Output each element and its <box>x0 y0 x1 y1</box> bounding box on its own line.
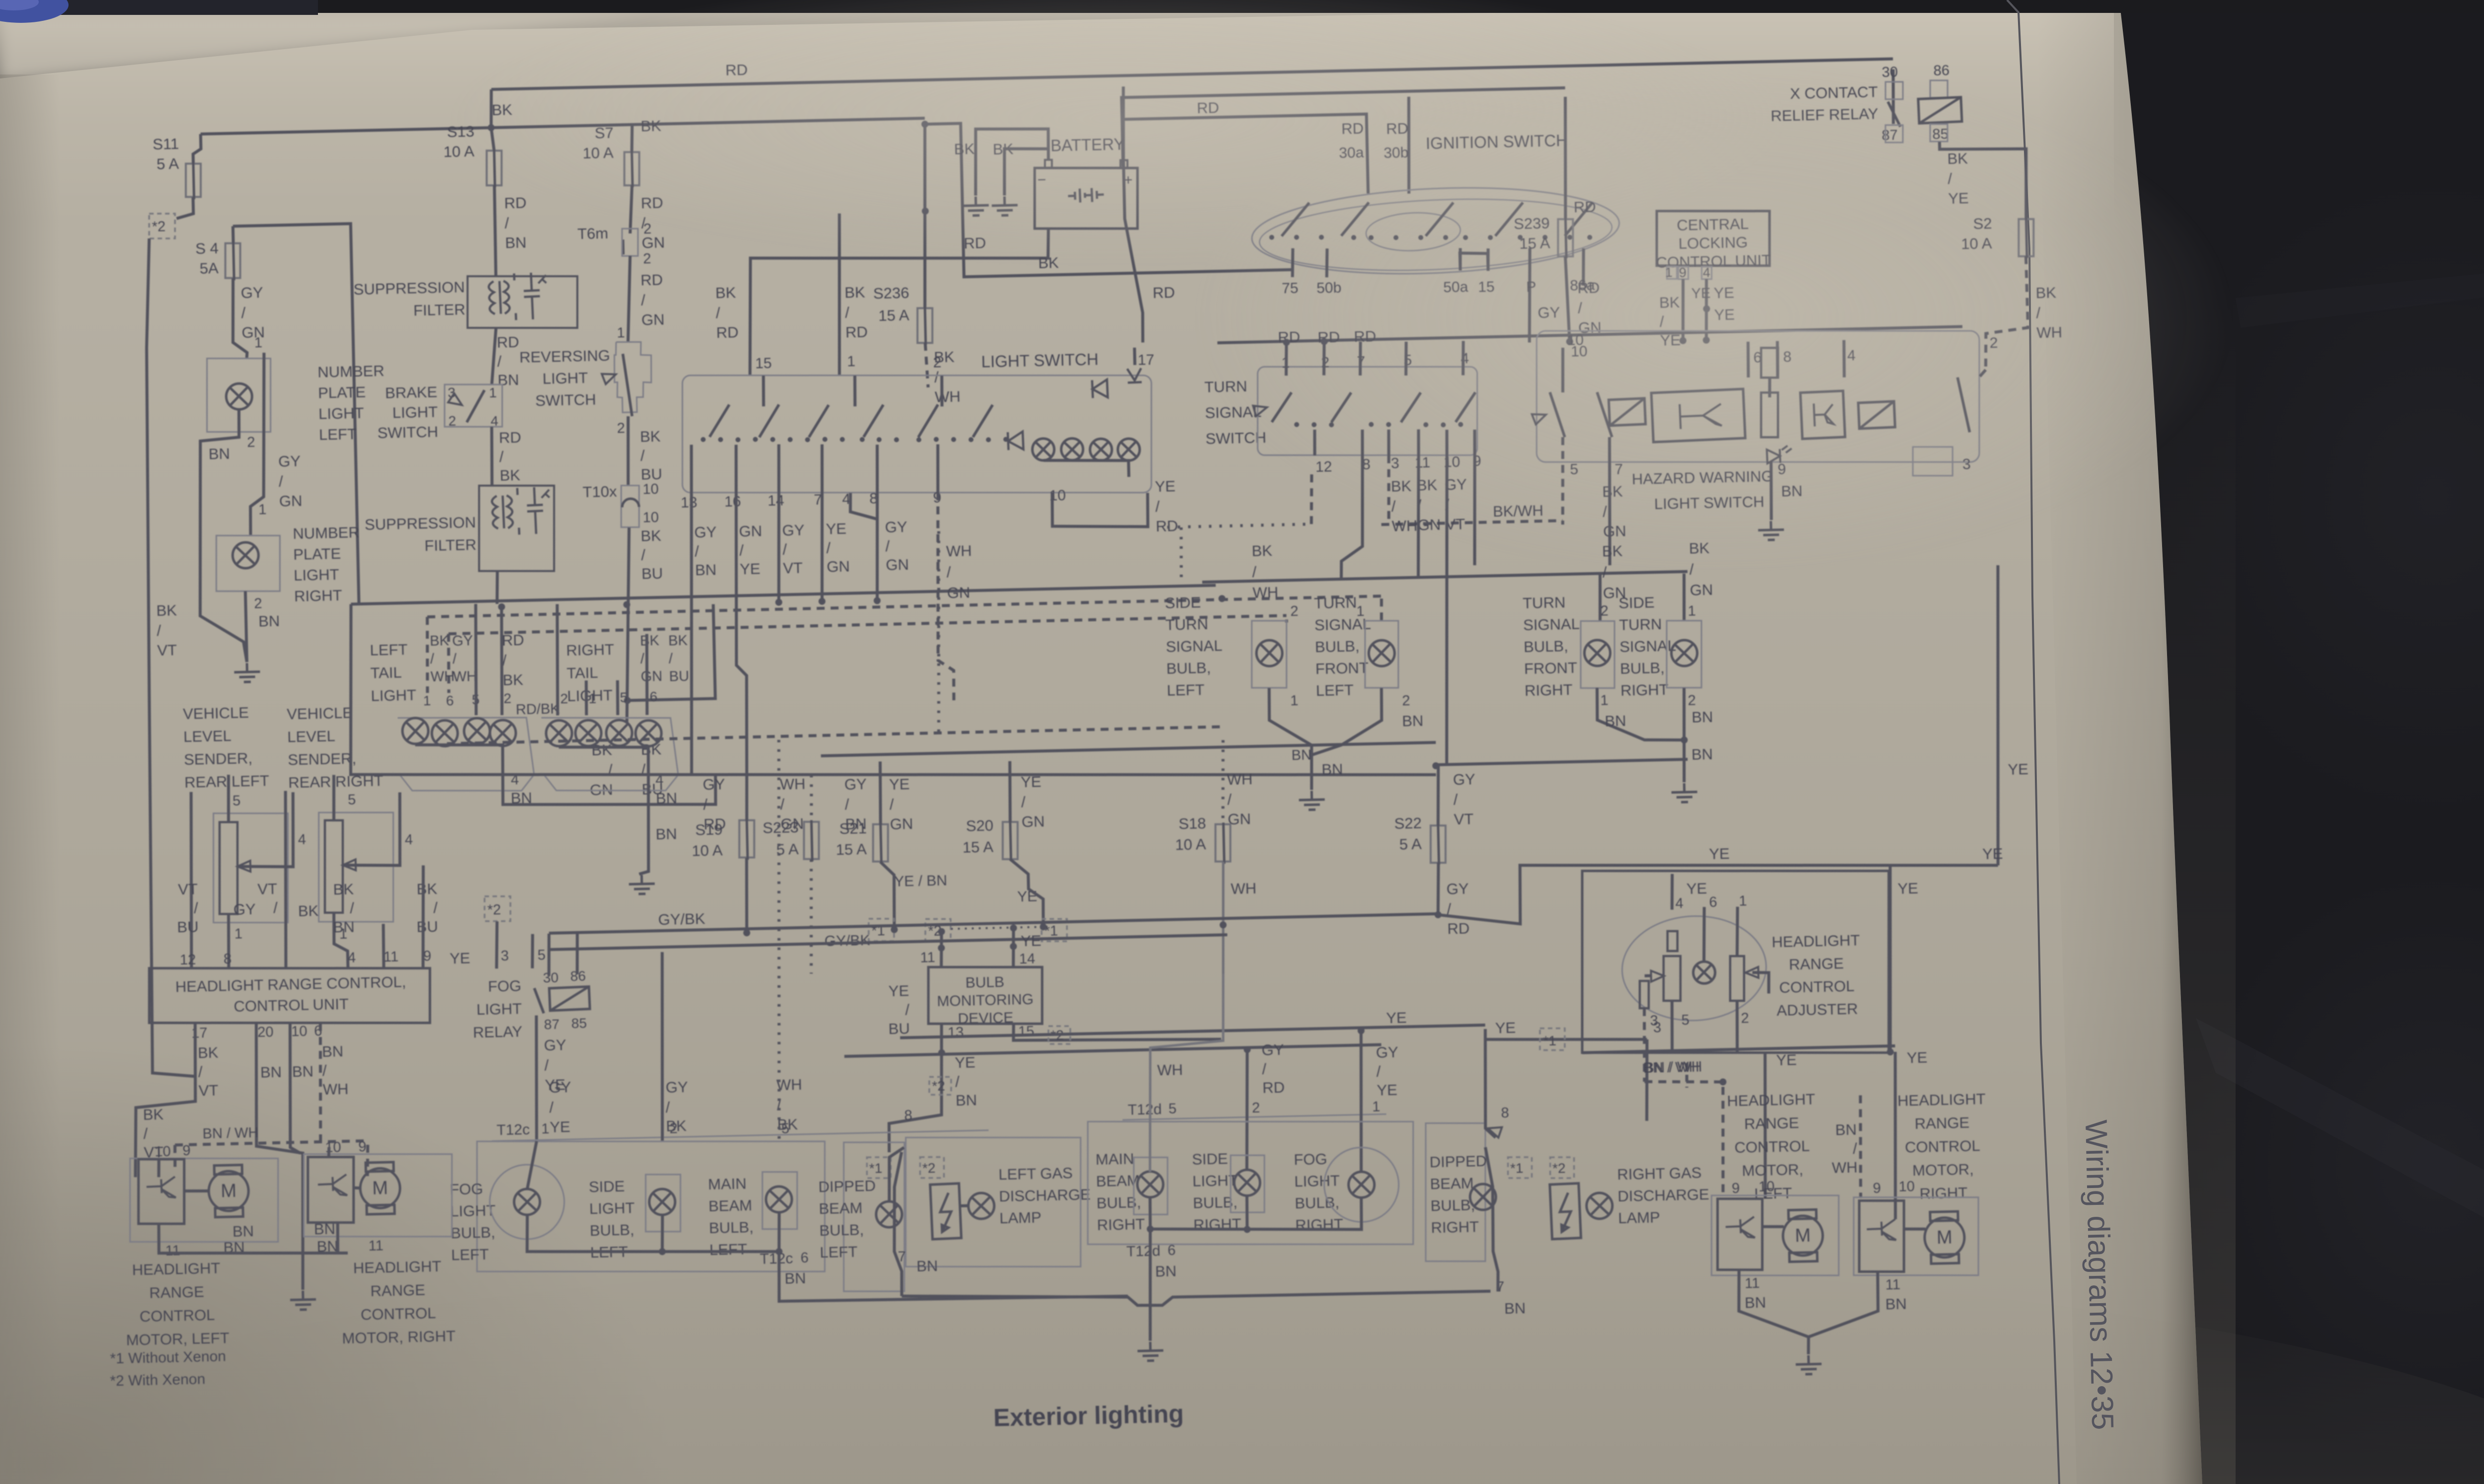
wire ts pin8 down <box>1338 455 1365 579</box>
light switch stub 1t <box>854 375 855 406</box>
svg-text:5 A: 5 A <box>1399 835 1422 853</box>
wire ls pin7 down <box>820 493 825 604</box>
svg-text:BN: BN <box>1321 760 1343 778</box>
side turn signal bulb left box <box>1252 621 1287 688</box>
light switch contact 2 <box>759 405 779 438</box>
wire hrcu pin3 <box>495 921 498 968</box>
wire S18 down <box>1221 862 1226 973</box>
light switch dot 1 <box>700 437 705 442</box>
light switch dot 15 <box>951 437 956 442</box>
bulb right tail 2 <box>575 720 602 746</box>
junction bus690 b <box>1679 337 1686 344</box>
junction bus1216 b <box>818 598 825 605</box>
side light bulb left box <box>646 1175 681 1232</box>
ignition contact dot 4 <box>1351 235 1356 240</box>
junction ts pin1 bus <box>1283 339 1290 346</box>
lightning symbol right <box>1550 1184 1581 1239</box>
light switch dot 6 <box>787 437 792 442</box>
wire right motor feed <box>1892 1052 1899 1219</box>
junction busB bmd14 <box>1010 943 1017 950</box>
ts arrow <box>1253 402 1268 416</box>
svg-text:11: 11 <box>920 950 935 966</box>
fuse S223 <box>804 822 819 859</box>
wire main bulb left up dotted <box>771 740 788 1141</box>
bulb right tail 1 <box>546 720 572 746</box>
wire S20 diag down <box>1010 858 1044 928</box>
bulb left gas discharge <box>968 1193 995 1219</box>
wire S4 drop <box>232 226 235 243</box>
brake switch arm <box>466 390 485 422</box>
wire adjuster pin3 dashed <box>1643 1008 1646 1082</box>
wire second supply drop <box>246 353 268 535</box>
main side fog right outer box <box>1088 1121 1413 1244</box>
ts contact dot 1 <box>1294 422 1299 427</box>
junction fog right <box>1358 1027 1365 1034</box>
junction t12d b <box>1243 1046 1250 1053</box>
svg-text:YE: YE <box>450 949 470 967</box>
svg-text:6: 6 <box>1167 1243 1176 1259</box>
junction bnwh <box>1719 1078 1726 1085</box>
light switch bulb 2 <box>1061 438 1084 460</box>
wire bnwh dashed rm2 <box>1859 1095 1863 1198</box>
suppression filter 1 symbol <box>488 272 548 323</box>
ignition switch contact 4 <box>1494 203 1523 236</box>
wire hazard pin4 drop <box>1844 340 1845 377</box>
clu pin 9 box <box>1678 267 1688 279</box>
wire bnwh dashed rm <box>1644 1080 1725 1200</box>
wire ign P down <box>1527 248 1532 343</box>
svg-text:1: 1 <box>423 693 431 708</box>
wire motor left link <box>1762 1226 1784 1227</box>
motor headlight range right lm <box>360 1162 400 1215</box>
fog bulb right circle <box>1323 1147 1399 1223</box>
wire vls R pin1 down <box>333 913 348 969</box>
light switch stub 13 <box>691 445 693 493</box>
ignition contact dot 11 <box>1518 235 1523 240</box>
ts contact dot 8 <box>1458 422 1463 427</box>
svg-text:YE: YE <box>1386 1009 1407 1027</box>
wire left motor feed <box>1762 1053 1768 1199</box>
junction S18 wh <box>1220 921 1227 928</box>
fuse S223 wire <box>811 820 812 861</box>
svg-text:S11: S11 <box>153 135 179 153</box>
junction bus690 c <box>1703 337 1709 344</box>
wire ls pin9 down dashed <box>934 492 954 701</box>
svg-text:4: 4 <box>348 950 356 965</box>
junction busA bmd11 <box>938 928 945 935</box>
wire fog bulb left wire <box>526 1141 538 1189</box>
svg-text:2: 2 <box>448 413 456 429</box>
wire side bulb to bus <box>661 1215 663 1252</box>
svg-text:WH: WH <box>1231 880 1256 897</box>
vls R resistor <box>325 820 343 913</box>
hazard transistor right <box>1800 391 1845 439</box>
bulb left tail 4 <box>490 720 516 746</box>
svg-text:1: 1 <box>1356 603 1365 619</box>
wire adjuster arrow wire <box>1644 974 1651 977</box>
wire left pair to ground <box>1269 687 1313 791</box>
motor left transistor glyph lm <box>146 1177 176 1198</box>
svg-text:15 A: 15 A <box>962 838 994 856</box>
junction BK bus right <box>922 121 929 128</box>
wire ts pin11 down <box>1415 455 1421 579</box>
svg-text:1: 1 <box>847 353 855 370</box>
wire ls pin10 down <box>1052 490 1149 528</box>
wire pin12 dashed drop <box>1310 474 1313 527</box>
wire fog relay 86 up <box>576 933 578 974</box>
junction left bulbs bus <box>659 1248 666 1255</box>
motor headlight range right <box>1924 1211 1965 1264</box>
hazard left arm <box>1550 392 1565 438</box>
fuse S239 <box>1558 219 1573 256</box>
ignition switch contact 3 <box>1425 203 1454 236</box>
wire S18 white down <box>1146 973 1228 1172</box>
ignition contact dot 6 <box>1394 235 1398 240</box>
ignition contact dot 5 <box>1369 235 1374 240</box>
light switch dot 7 <box>805 437 810 442</box>
wire ign 50a bracket <box>1460 252 1488 271</box>
top dark strip <box>0 0 2484 13</box>
motor left outer <box>1711 1195 1839 1275</box>
svg-text:Wiring diagrams 12•35: Wiring diagrams 12•35 <box>2079 1119 2120 1430</box>
wire adjuster bulb up <box>1703 907 1705 962</box>
wire hazard pin9 to ground <box>1770 462 1773 520</box>
wire T12d6 to ground <box>1148 1229 1153 1341</box>
ignition contact dot 9 <box>1463 235 1468 240</box>
light switch dot 8 <box>822 437 827 442</box>
wire clu pin4 down <box>1705 279 1708 343</box>
photo glare highlights <box>1192 60 2236 576</box>
svg-text:M: M <box>1795 1225 1811 1247</box>
motor right outer <box>1854 1197 1978 1275</box>
wire S239 vertical <box>1563 97 1568 219</box>
wire stsR feed <box>1683 574 1685 621</box>
svg-text:BN: BN <box>258 612 280 630</box>
svg-text:*1: *1 <box>869 1160 882 1176</box>
wire RD branch battery to 30b <box>1122 88 1567 166</box>
junction bus1216 d <box>498 603 505 610</box>
wire vls R pin5 <box>333 775 335 820</box>
relay terminal 30 <box>1885 82 1903 99</box>
wire motors ground stem <box>1808 1337 1809 1354</box>
wire hrcu pin10 down <box>288 1023 301 1153</box>
svg-text:1: 1 <box>234 926 243 942</box>
wire battery minus BK line <box>747 228 1051 375</box>
wire lm right pin10 wire <box>328 1147 329 1157</box>
fuse S21 wire <box>880 822 881 864</box>
light switch contact 1 <box>709 405 730 437</box>
turn signal bulb front right box <box>1581 621 1615 688</box>
hazard resistor mid <box>1761 392 1778 437</box>
junction right bulbs <box>1243 1226 1250 1233</box>
fuse S18 wire <box>1223 822 1224 864</box>
wire right gas down <box>1485 1147 1498 1291</box>
svg-text:BN: BN <box>260 1063 282 1081</box>
fuse S236 wire <box>925 306 926 345</box>
svg-text:86: 86 <box>1933 63 1949 79</box>
wire left tail bulbs bus <box>415 743 503 777</box>
svg-text:5: 5 <box>1168 1101 1177 1116</box>
wire tail light bus <box>351 585 1216 604</box>
page margin rule right <box>2007 0 2059 1484</box>
connector *2 b <box>926 919 951 941</box>
svg-text:LIGHT SWITCH: LIGHT SWITCH <box>981 350 1099 371</box>
hazard resistor top <box>1761 348 1778 377</box>
fuse S13 wire <box>494 148 495 187</box>
svg-text:BN: BN <box>292 1062 314 1080</box>
fog bulb left circle <box>489 1164 565 1240</box>
wire S21 up <box>879 761 882 824</box>
ts arm 3 <box>1400 392 1421 422</box>
wire dashed bus 1 <box>427 596 1384 617</box>
number plate light left box <box>207 359 271 432</box>
brake switch arrow <box>448 393 465 410</box>
wire RD top bus <box>491 59 1893 89</box>
wire gas bulb link <box>959 1204 968 1207</box>
fuse S13 <box>487 150 502 185</box>
svg-text:5: 5 <box>1681 1012 1690 1028</box>
connector *1 dbr <box>1508 1157 1532 1178</box>
svg-text:1: 1 <box>541 1121 549 1137</box>
svg-text:5: 5 <box>620 689 627 705</box>
wire S239 down to bus <box>1565 256 1570 343</box>
svg-text:BN: BN <box>1402 712 1424 730</box>
light switch bulb 3 <box>1090 439 1112 461</box>
bulb fog light right <box>1348 1172 1375 1198</box>
svg-text:2: 2 <box>1688 692 1696 708</box>
svg-text:6: 6 <box>649 689 657 704</box>
motor headlight range left lm <box>208 1165 249 1217</box>
relay terminal 86 <box>1930 80 1947 98</box>
junction bus1216 e <box>623 601 630 608</box>
wire tail L pin5 <box>474 604 478 715</box>
connector T10x arc <box>622 499 639 508</box>
svg-text:9: 9 <box>1731 1181 1740 1196</box>
adjuster arrow right <box>1745 967 1758 978</box>
relay X contact coil <box>1918 97 1962 124</box>
junction BK/BU <box>624 697 631 704</box>
wire tail R pin2 <box>555 604 560 715</box>
vls L resistor <box>220 822 237 914</box>
svg-text:5: 5 <box>538 947 546 963</box>
bulb number plate light left <box>226 383 252 410</box>
svg-text:2: 2 <box>1290 603 1299 619</box>
light switch stub 2t <box>941 375 942 406</box>
wire stsR to ground <box>1682 688 1686 782</box>
light switch dot 5 <box>770 437 775 442</box>
light switch dot 14 <box>933 437 938 442</box>
svg-text:S236: S236 <box>873 284 909 302</box>
connector T6m <box>622 239 625 254</box>
light switch dot 4 <box>753 437 758 442</box>
wire BK/BU branch <box>625 604 715 701</box>
svg-text:5 A: 5 A <box>156 155 179 173</box>
battery box <box>1035 168 1138 228</box>
wire motors to ground <box>1738 1267 1879 1338</box>
adjuster pot blob <box>1620 913 1769 1023</box>
fuse S4 wire <box>233 241 234 280</box>
light switch outline <box>683 375 1152 493</box>
ignition switch ellipse outer <box>1250 181 1621 281</box>
wire BKWH dashed to hazard <box>1381 520 1562 524</box>
wire vls L pin4 <box>236 792 295 868</box>
light switch dot 3 <box>735 437 740 442</box>
svg-text:YE: YE <box>1897 880 1918 897</box>
svg-text:4: 4 <box>405 832 413 848</box>
wire S223 dotted up <box>810 775 812 822</box>
connector *1 a <box>869 919 894 941</box>
svg-text:6: 6 <box>1709 894 1717 910</box>
adjuster resistor far left <box>1640 981 1649 1008</box>
reversing switch arrow <box>602 369 618 384</box>
wire side right to bus <box>1246 1195 1247 1229</box>
adjuster arrow left <box>1651 970 1664 982</box>
wire bus 1560 <box>347 581 1436 799</box>
svg-text:11: 11 <box>384 949 399 965</box>
wire S22 up <box>1437 766 1440 825</box>
svg-text:15: 15 <box>1018 1024 1034 1040</box>
wire dashed 1490 <box>447 727 1224 743</box>
brake light switch outline <box>445 384 502 427</box>
light switch dot 18 <box>1003 437 1008 442</box>
wire motor right link <box>1904 1229 1926 1230</box>
light switch stub 15t <box>763 375 764 406</box>
wire adjuster wire r <box>1752 972 1769 994</box>
junction busB bmd11 <box>938 945 945 952</box>
motor right outer lm <box>304 1154 452 1237</box>
light switch stub 9 <box>937 445 939 493</box>
hazard LED <box>1767 445 1792 463</box>
ignition contact dot 13 <box>1567 235 1572 240</box>
svg-text:14: 14 <box>768 492 784 509</box>
svg-text:YE: YE <box>1495 1019 1516 1037</box>
bulb right gas discharge <box>1586 1192 1613 1219</box>
wire T12c line <box>492 1130 989 1141</box>
svg-text:3: 3 <box>1650 1013 1658 1029</box>
connector *2 bmd15 <box>1048 1026 1070 1044</box>
wire fog right up <box>1358 1029 1364 1172</box>
wire battery plus bus down <box>1123 160 1143 343</box>
fuse S20 wire <box>1010 820 1011 861</box>
wire lm left to bus <box>158 1220 348 1257</box>
wire S13 to filter <box>494 185 496 276</box>
junction left bulbs bus2 <box>776 1248 782 1255</box>
wire vls R pin4 <box>341 792 401 867</box>
light switch dot 17 <box>986 437 991 442</box>
svg-text:*1: *1 <box>1510 1160 1523 1176</box>
headlight range control adjuster box <box>1582 871 1889 1053</box>
svg-text:10 A: 10 A <box>692 841 723 859</box>
svg-text:RD/BK: RD/BK <box>516 701 560 718</box>
svg-text:14: 14 <box>1019 951 1035 967</box>
svg-text:GY/BK: GY/BK <box>658 910 705 928</box>
svg-text:S18: S18 <box>1178 815 1206 832</box>
light switch pin17 diode <box>1127 368 1142 382</box>
ignition contact dot 8 <box>1443 235 1448 240</box>
junction busA S20 <box>1040 923 1047 930</box>
wire right tail bulbs bus <box>559 745 649 777</box>
bulb fog light left <box>514 1188 540 1215</box>
battery cell symbol <box>1068 188 1104 203</box>
svg-text:BN: BN <box>1291 747 1312 763</box>
wire S22 down <box>1437 863 1439 915</box>
fuse S11 wire <box>193 162 194 199</box>
wire hrcu pin9 down <box>421 865 426 968</box>
wire hrcu pin20 down <box>254 1022 306 1291</box>
svg-text:BN: BN <box>1691 745 1713 763</box>
side turn signal bulb right box <box>1667 621 1702 688</box>
ground right bulbs <box>1137 1341 1164 1361</box>
svg-text:1: 1 <box>258 502 267 518</box>
wire hazard pin5 dashed <box>1561 437 1565 524</box>
svg-text:M: M <box>221 1181 237 1202</box>
light switch dot 13 <box>916 437 921 442</box>
bulb left tail 1 <box>402 718 429 744</box>
svg-text:10: 10 <box>1758 1179 1775 1195</box>
wire relay 85 to S2 <box>1940 140 2027 221</box>
motor left outer lm <box>130 1158 278 1242</box>
svg-text:1: 1 <box>588 691 596 706</box>
wire hrcu pin5 YE <box>532 934 534 968</box>
wire ign 75 down <box>1292 248 1293 277</box>
svg-text:*2: *2 <box>1552 1160 1566 1176</box>
wire main bus 690 <box>1217 327 1962 343</box>
svg-text:20: 20 <box>257 1024 274 1040</box>
wire hazard pin8 drop <box>1777 341 1779 377</box>
svg-text:2: 2 <box>1402 693 1410 709</box>
wire vls L pin1 down <box>228 914 230 968</box>
ignition contact dot 3 <box>1319 235 1324 240</box>
hazard right arm <box>1957 377 1969 432</box>
svg-text:BN: BN <box>1605 712 1627 730</box>
ground right motors <box>1795 1355 1822 1374</box>
adjuster resistor small <box>1667 931 1677 951</box>
svg-text:*2: *2 <box>932 1078 945 1094</box>
svg-text:M: M <box>1937 1227 1953 1248</box>
svg-text:WH: WH <box>1157 1061 1183 1079</box>
wire ye down adj <box>1886 865 1894 1053</box>
diagram ink (rotated like the photographed page) <box>81 32 2086 1451</box>
reversing light switch outline <box>614 341 652 413</box>
connector *2 left <box>149 214 175 238</box>
svg-text:1: 1 <box>489 385 497 400</box>
ts stub 9 <box>1474 430 1475 455</box>
light switch stub 14 <box>778 445 780 493</box>
svg-text:13: 13 <box>681 494 698 511</box>
wire brake sw to RD/BK <box>491 427 493 486</box>
svg-text:2: 2 <box>643 251 651 267</box>
relay X contact arm <box>1888 101 1900 127</box>
blue blob top-left <box>0 0 69 23</box>
ts stub 11 <box>1418 430 1419 455</box>
vls R wiper <box>343 859 356 871</box>
connector *2 gas <box>920 1157 944 1178</box>
table wedge above page top edge <box>0 0 0 0</box>
bulb dipped beam right <box>1470 1184 1496 1210</box>
bulb right tail 4 <box>635 720 662 746</box>
fuse S7 <box>624 152 639 185</box>
wire hazard pin7 vert <box>1607 437 1613 565</box>
vls L wiper <box>237 861 250 872</box>
wire turn bulb bus <box>1202 572 1688 582</box>
wire npl to BN rail <box>196 410 247 663</box>
wire left bulbs bus <box>526 1209 780 1257</box>
wire S7 to T6m <box>629 185 633 233</box>
wire S223 down dotted <box>809 859 814 973</box>
wire side right up <box>1244 1049 1249 1170</box>
wire number plate supply loop <box>233 223 359 606</box>
wire pin17 up <box>1133 348 1137 365</box>
